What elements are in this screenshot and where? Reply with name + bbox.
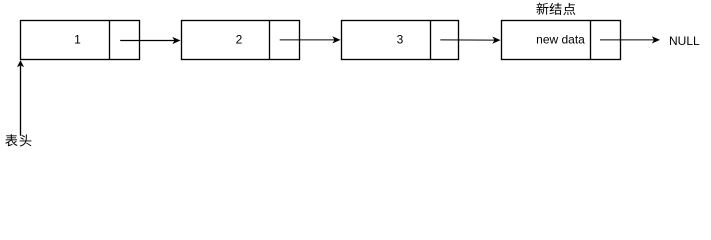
- node 1 outer box: [21, 21, 140, 60]
- svg-text:1: 1: [74, 32, 81, 46]
- svg-text:2: 2: [236, 32, 243, 46]
- head pointer arrowhead: [17, 60, 24, 67]
- node 3 outer box: [342, 21, 459, 60]
- arrow node2->node3 shaft: [280, 39, 335, 41]
- svg-text:new data: new data: [536, 32, 585, 46]
- head pointer shaft: [20, 65, 22, 135]
- arrow node1->node2 shaft: [120, 40, 174, 42]
- node 2 pointer-field divider: [269, 21, 271, 60]
- svg-text:NULL: NULL: [669, 34, 700, 48]
- node 4 (new node) outer box: [502, 21, 621, 60]
- node 4 (new node) pointer-field divider: [590, 21, 592, 60]
- arrow node1->node2 head: [172, 37, 180, 44]
- singly linked list diagram: [0, 0, 711, 151]
- node 2 outer box: [182, 21, 300, 60]
- arrow node4->NULL head: [652, 36, 660, 43]
- arrow node3->node4 shaft: [440, 39, 494, 41]
- node 3 pointer-field divider: [430, 21, 432, 60]
- node 1 pointer-field divider: [109, 21, 111, 60]
- label 表头: [5, 134, 31, 146]
- svg-text:3: 3: [397, 32, 404, 46]
- arrow node2->node3 head: [332, 36, 340, 43]
- arrow node3->node4 head: [492, 37, 500, 44]
- arrow node4->NULL shaft: [600, 39, 654, 41]
- label 新结点 above node 4: [536, 3, 575, 16]
